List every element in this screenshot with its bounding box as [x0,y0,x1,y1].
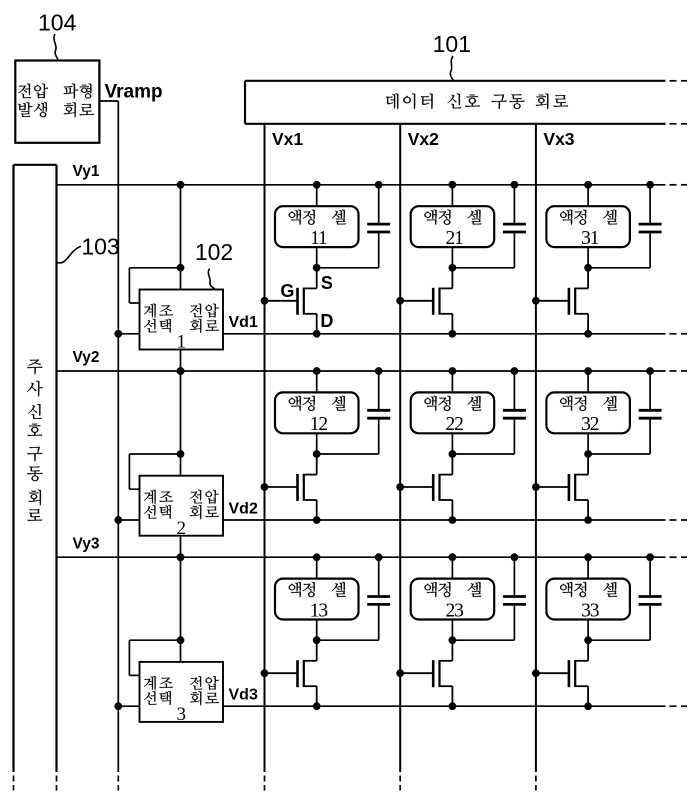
svg-text:Vx2: Vx2 [408,129,439,149]
svg-text:102: 102 [195,239,233,265]
wire Vx1 data line [264,124,266,791]
block U1 grayscale voltage selection circuit 1 [140,290,224,353]
transistor Q33 [533,640,592,709]
capacitor C13 [367,554,390,640]
wire cell 22 bottom electrode to storage node [449,433,456,457]
wire storage node 21 [452,267,514,269]
block U2 grayscale voltage selection circuit 2 [140,476,224,539]
svg-text:22: 22 [445,414,463,435]
svg-text:3: 3 [177,704,187,725]
transistor Q22 [397,454,456,523]
svg-text:11: 11 [310,228,327,249]
svg-text:S: S [321,273,333,293]
svg-text:23: 23 [445,600,463,621]
wire storage node 23 [452,639,514,641]
wire storage node 22 [452,453,514,455]
wire cell 23 bottom electrode to storage node [449,620,456,644]
capacitor C21 [503,181,526,267]
cell 33 liquid crystal cell box [546,579,630,622]
wire Vd1 gray-level output line [223,333,687,335]
svg-text:G: G [280,281,294,301]
wire storage node 12 [317,453,379,455]
wire from block U1 bottom to Vy2 [177,350,184,375]
transistor Q21 [397,268,456,337]
wire storage node 11 [317,267,379,269]
wire cell 23 top electrode to Vy3 [449,554,456,579]
transistor Q31 [533,268,592,337]
capacitor C32 [639,368,662,454]
cell 31 liquid crystal cell box [546,206,630,249]
svg-text:101: 101 [433,31,471,57]
wire Vy3 scan line [57,556,688,558]
label Vd2 [229,500,258,517]
leader line to block 103 [58,246,82,263]
wire cell 33 bottom electrode to storage node [585,620,592,644]
leader line to block 102 [208,269,214,289]
wire riser from Vy1 to block U1 [177,181,184,289]
wire storage node 13 [317,639,379,641]
wire Vd3 gray-level output line [223,705,687,707]
svg-text:D: D [320,311,333,331]
wire cell 21 bottom electrode to storage node [449,247,456,271]
label 104 [38,9,77,35]
wire storage node 31 [588,267,650,269]
label Vd1 [229,314,258,331]
svg-text:Vd1: Vd1 [229,314,258,331]
wire cell 21 top electrode to Vy1 [449,181,456,206]
cell 13 liquid crystal cell box [275,579,359,622]
wire riser from Vy3 to block U3 [177,554,184,662]
capacitor C31 [639,181,662,267]
svg-text:32: 32 [581,414,599,435]
svg-text:12: 12 [310,414,328,435]
capacitor C11 [367,181,390,267]
cell 11 liquid crystal cell box [275,206,359,249]
wire from block U2 bottom to Vy3 [177,536,184,561]
wire storage node 33 [588,639,650,641]
wire cell 11 top electrode to Vy1 [313,181,320,206]
wire cell 13 top electrode to Vy3 [313,554,320,579]
svg-text:Vy3: Vy3 [73,535,100,552]
capacitor C23 [503,554,526,640]
svg-text:Vd3: Vd3 [229,687,258,704]
leader line to block 101 [450,56,453,81]
svg-text:13: 13 [310,600,328,621]
label Vy2 [73,349,100,366]
wire cell 33 top electrode to Vy3 [585,554,592,579]
label 102 [195,239,233,265]
wire Vramp tap into block U1 [115,330,140,337]
cell 22 liquid crystal cell box [411,392,495,435]
transistor Q23 [397,640,456,709]
wire Vramp tap into block U3 [115,703,140,710]
label Vramp [105,82,163,103]
svg-text:21: 21 [445,228,463,249]
pin label G of transistor Q11 [280,281,294,301]
wire cell 12 top electrode to Vy2 [313,368,320,393]
leader line to block 104 [54,34,58,60]
wire feedback loop of block U1 [129,268,180,303]
capacitor C12 [367,368,390,454]
capacitor C33 [639,554,662,640]
wire cell 32 bottom electrode to storage node [585,433,592,457]
label Vd3 [229,687,258,704]
block 104 voltage waveform generation circuit [15,61,99,143]
transistor Q12 [261,454,320,523]
svg-text:Vx3: Vx3 [543,129,574,149]
block U3 grayscale voltage selection circuit 3 [140,662,224,725]
pin label D of transistor Q11 [320,311,333,331]
wire Vramp from block 104 down the left side [99,101,118,791]
label Vx1 [272,129,303,149]
svg-text:31: 31 [581,228,599,249]
label 101 [433,31,471,57]
wire cell 12 bottom electrode to storage node [313,433,320,457]
wire cell 32 top electrode to Vy2 [585,368,592,393]
label Vy1 [73,163,100,180]
svg-text:Vramp: Vramp [105,82,163,103]
wire storage node 32 [588,453,650,455]
svg-text:104: 104 [38,9,77,35]
wire feedback loop of block U2 [129,454,180,489]
label Vx3 [543,129,574,149]
svg-text:Vx1: Vx1 [272,129,303,149]
pin label S of transistor Q11 [321,273,333,293]
wire Vd2 gray-level output line [223,519,687,521]
label Vx2 [408,129,439,149]
wire riser from Vy2 to block U2 [177,368,184,476]
wire cell 31 bottom electrode to storage node [585,247,592,271]
svg-text:103: 103 [81,234,119,260]
wire feedback loop of block U3 [129,640,180,675]
cell 32 liquid crystal cell box [546,392,630,435]
cell 12 liquid crystal cell box [275,392,359,435]
wire Vy2 scan line [57,370,688,372]
wire cell 11 bottom electrode to storage node [313,247,320,271]
wire cell 13 bottom electrode to storage node [313,620,320,644]
svg-text:Vy1: Vy1 [73,163,100,180]
wire Vramp tap into block U2 [115,517,140,524]
cell 23 liquid crystal cell box [411,579,495,622]
wire Vx2 data line [399,124,401,791]
capacitor C22 [503,368,526,454]
label Vy3 [73,535,100,552]
svg-text:33: 33 [581,600,599,621]
block 101 data signal driving circuit [245,81,687,124]
wire Vx3 data line [535,124,537,791]
svg-text:Vy2: Vy2 [73,349,100,366]
wire cell 22 top electrode to Vy2 [449,368,456,393]
transistor Q11 [261,268,320,337]
transistor Q13 [261,640,320,709]
label 103 [81,234,119,260]
cell 21 liquid crystal cell box [411,206,495,249]
wire cell 31 top electrode to Vy1 [585,181,592,206]
wire Vy1 scan line [57,184,688,186]
block 103 scan signal driving circuit (open bottom) [14,165,57,791]
svg-text:Vd2: Vd2 [229,500,258,517]
transistor Q32 [533,454,592,523]
